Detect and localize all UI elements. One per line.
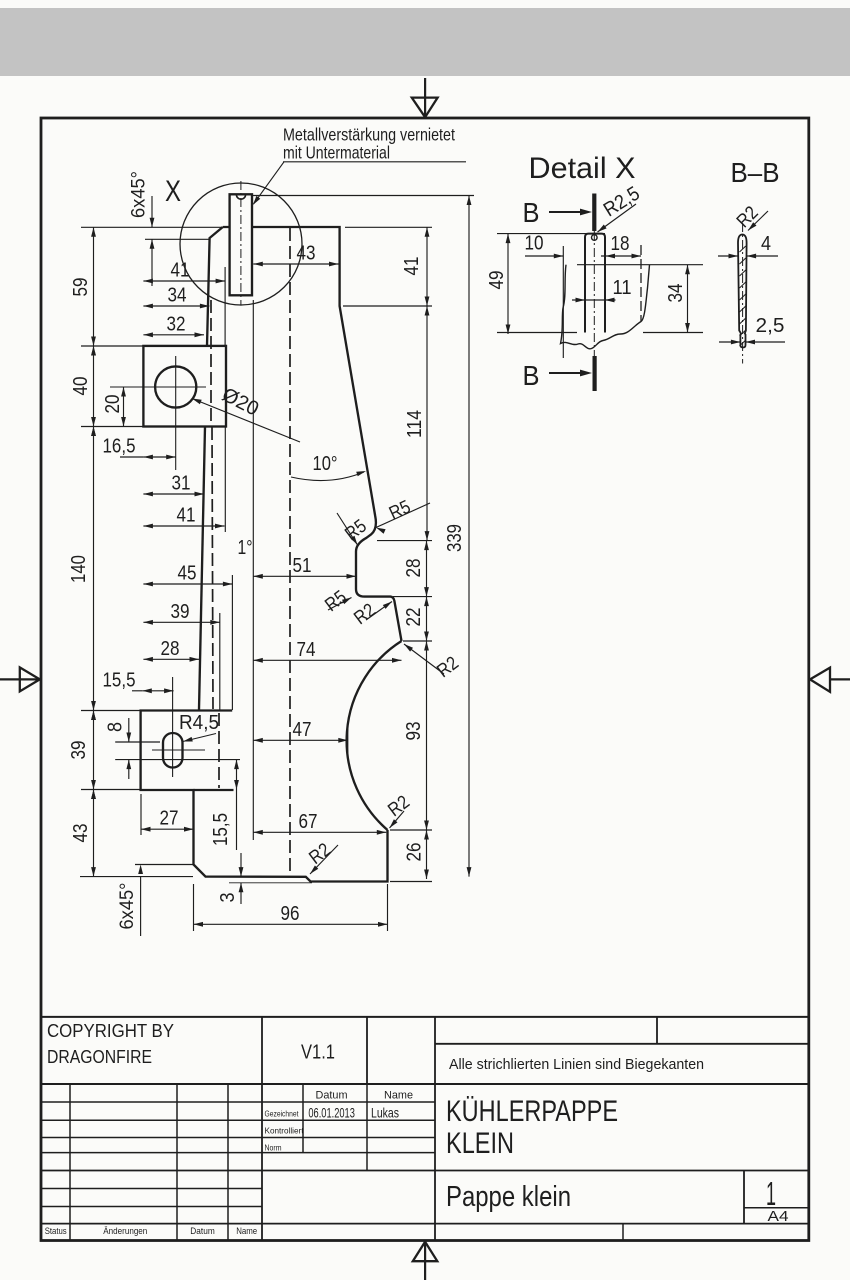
detail bend dashed x=641 xyxy=(640,245,642,321)
svg-text:KÜHLERPAPPE: KÜHLERPAPPE xyxy=(446,1095,618,1128)
svg-text:27: 27 xyxy=(160,808,179,830)
dim 28 right xyxy=(426,541,428,597)
extension 39 xyxy=(219,613,221,710)
centering mark left xyxy=(0,678,40,680)
title block vertical main dividers xyxy=(261,1017,263,1084)
svg-text:15,5: 15,5 xyxy=(210,813,232,846)
part outline bottom and left side xyxy=(141,711,388,882)
dim 16.5 xyxy=(120,456,143,458)
svg-text:28: 28 xyxy=(161,638,180,660)
svg-text:V1.1: V1.1 xyxy=(301,1042,335,1064)
dim 74 xyxy=(253,659,401,661)
svg-text:34: 34 xyxy=(665,284,687,303)
svg-text:45: 45 xyxy=(178,563,197,585)
svg-text:15,5: 15,5 xyxy=(103,669,136,691)
BB dim 4 xyxy=(718,255,738,257)
detail dim 49 xyxy=(507,234,509,334)
dim 41 mid xyxy=(143,525,224,527)
dim 339 xyxy=(468,196,470,877)
detail center line xyxy=(593,231,595,361)
svg-text:18: 18 xyxy=(611,233,630,255)
svg-text:Name: Name xyxy=(236,1226,257,1237)
svg-text:mit Untermaterial: mit Untermaterial xyxy=(283,143,390,163)
svg-text:Datum: Datum xyxy=(190,1226,215,1237)
drawing frame border xyxy=(41,118,809,1241)
dim 27 xyxy=(141,828,194,830)
svg-text:B–B: B–B xyxy=(731,157,780,188)
left table columns xyxy=(69,1084,71,1240)
svg-text:B: B xyxy=(523,360,540,391)
svg-text:KLEIN: KLEIN xyxy=(446,1127,514,1160)
dim 47 xyxy=(253,739,347,741)
extension 27 left xyxy=(140,794,142,835)
step edge overrun y=790 xyxy=(194,789,234,791)
detail dim 10 xyxy=(525,255,563,257)
svg-text:20: 20 xyxy=(102,395,124,414)
detail rivet small circle R2.5 xyxy=(592,235,598,241)
rivet top notch xyxy=(236,195,245,200)
dim 45 xyxy=(143,583,232,585)
centering mark bottom xyxy=(424,1242,426,1280)
bend line main x=290 xyxy=(289,228,291,877)
svg-text:93: 93 xyxy=(403,722,425,741)
dim 15.5 horizontal xyxy=(132,690,142,692)
svg-text:140: 140 xyxy=(68,555,90,583)
svg-text:16,5: 16,5 xyxy=(103,436,136,458)
dim 8 xyxy=(128,718,130,742)
dim 43 top xyxy=(253,263,338,265)
svg-text:11: 11 xyxy=(613,277,632,299)
svg-text:96: 96 xyxy=(281,903,300,925)
part outline 1deg left edge lower xyxy=(199,427,205,710)
svg-text:Lukas: Lukas xyxy=(371,1105,399,1121)
detail dim 11 xyxy=(572,299,616,301)
svg-text:2,5: 2,5 xyxy=(756,315,785,337)
bend line slot block x=219 xyxy=(218,713,220,788)
dim 26 xyxy=(426,830,428,879)
centering mark right xyxy=(830,678,850,680)
centering mark top xyxy=(424,78,426,117)
dim 20 xyxy=(123,387,125,427)
title block outer lines xyxy=(41,1016,809,1018)
rivet reinforcement plate xyxy=(230,194,252,295)
extension rivet right edge long xyxy=(252,300,254,840)
svg-text:28: 28 xyxy=(403,559,425,578)
svg-text:B: B xyxy=(523,197,540,228)
extension 3 step lower xyxy=(229,882,312,884)
format cell dividers xyxy=(743,1171,745,1224)
extension 96 xyxy=(193,884,195,931)
dim 32 xyxy=(143,334,204,336)
slot R4.5 obround xyxy=(163,733,183,768)
dim 6x45 bottom xyxy=(140,877,142,936)
svg-text:39: 39 xyxy=(171,601,190,623)
svg-text:6x45°: 6x45° xyxy=(117,883,138,930)
label R2 arc bottom xyxy=(390,811,405,828)
BB center line xyxy=(742,223,744,364)
extensions right side chain xyxy=(377,540,432,542)
svg-text:Alle strichlierten Linien sind: Alle strichlierten Linien sind Biegekant… xyxy=(449,1056,704,1073)
svg-text:43: 43 xyxy=(297,243,316,265)
svg-text:41: 41 xyxy=(177,505,196,527)
svg-text:Name: Name xyxy=(384,1090,413,1102)
dim 114 xyxy=(426,306,428,541)
svg-text:339: 339 xyxy=(444,524,466,552)
detail extension lines xyxy=(497,233,605,235)
label R5 right xyxy=(376,503,430,528)
svg-text:59: 59 xyxy=(70,278,92,297)
part outline main body xyxy=(223,227,402,641)
part outline big concave arc R2 xyxy=(347,641,402,830)
extension arc leftmost 47 xyxy=(347,728,349,757)
detail extension 10 at x=563 xyxy=(562,246,564,358)
svg-text:22: 22 xyxy=(403,608,425,627)
dim 41 right xyxy=(426,227,428,306)
svg-text:10°: 10° xyxy=(313,453,338,475)
dimension chain line left xyxy=(93,227,95,876)
svg-text:8: 8 xyxy=(105,722,127,732)
extension right top 41 xyxy=(345,226,432,228)
rivet center line xyxy=(240,181,242,306)
svg-text:41: 41 xyxy=(171,260,190,282)
detail rivet section outline xyxy=(585,234,605,333)
square flap with hole xyxy=(143,346,226,427)
dim 34 xyxy=(143,305,209,307)
svg-text:6x45°: 6x45° xyxy=(129,171,150,218)
svg-text:67: 67 xyxy=(299,811,318,833)
BB hatching xyxy=(740,246,746,252)
hole center lines xyxy=(110,386,206,388)
gray header bar xyxy=(0,8,850,76)
BB dim 2.5 xyxy=(719,341,740,343)
dim 15.5 vertical xyxy=(236,760,238,850)
svg-text:26: 26 xyxy=(404,843,426,862)
extensions slot 8 and 15.5 xyxy=(115,741,160,743)
svg-text:114: 114 xyxy=(404,410,426,438)
part outline 1deg left edge upper and chamfer 6x45 xyxy=(207,227,223,346)
svg-text:DRAGONFIRE: DRAGONFIRE xyxy=(47,1047,152,1067)
svg-text:06.01.2013: 06.01.2013 xyxy=(308,1105,355,1121)
svg-text:Kontrolliert: Kontrolliert xyxy=(265,1126,305,1136)
dim 3 step xyxy=(240,853,242,877)
extension lines left chain xyxy=(81,226,222,228)
svg-text:31: 31 xyxy=(172,473,191,495)
svg-text:3: 3 xyxy=(217,893,239,903)
label R2 at 22 point xyxy=(404,644,444,674)
svg-text:Änderungen: Änderungen xyxy=(103,1226,147,1237)
slot center lines xyxy=(152,749,205,751)
extension 45 xyxy=(231,575,233,710)
label R2 bottom step xyxy=(310,845,338,874)
svg-text:49: 49 xyxy=(486,271,508,290)
svg-text:51: 51 xyxy=(293,555,312,577)
svg-text:47: 47 xyxy=(293,719,312,741)
step edge overrun y=710 xyxy=(199,709,232,711)
svg-text:Status: Status xyxy=(45,1226,67,1237)
svg-text:39: 39 xyxy=(68,741,90,760)
dim 6x45 top xyxy=(151,196,153,227)
label R2.5 with leader xyxy=(598,204,637,232)
svg-text:43: 43 xyxy=(70,824,92,843)
svg-text:Pappe klein: Pappe klein xyxy=(446,1181,571,1213)
detail dim 18 xyxy=(601,255,641,257)
svg-text:Detail X: Detail X xyxy=(529,152,636,185)
extension rivet top for 339 xyxy=(252,195,474,197)
svg-text:1: 1 xyxy=(766,1175,776,1212)
label R2 BB xyxy=(748,211,768,231)
hole D20 xyxy=(155,366,196,407)
svg-text:Datum: Datum xyxy=(316,1090,348,1102)
dim 51 xyxy=(253,575,356,577)
left table rows xyxy=(41,1101,435,1103)
bend line left x=211 xyxy=(210,300,212,427)
svg-text:41: 41 xyxy=(401,257,423,276)
detail dim 34 xyxy=(687,265,689,333)
label D20 xyxy=(192,399,300,443)
detail X circle xyxy=(180,183,302,305)
svg-text:74: 74 xyxy=(297,639,316,661)
svg-text:COPYRIGHT BY: COPYRIGHT BY xyxy=(47,1021,174,1041)
svg-text:4: 4 xyxy=(761,233,771,255)
label R5 tab lower-left xyxy=(328,598,352,611)
svg-text:R4,5: R4,5 xyxy=(179,712,219,734)
dim 67 xyxy=(253,831,386,833)
detail torn material outline xyxy=(561,265,650,349)
svg-text:32: 32 xyxy=(167,313,186,335)
svg-text:40: 40 xyxy=(70,377,92,396)
svg-text:10: 10 xyxy=(525,233,544,255)
dim 96 xyxy=(194,923,388,925)
svg-text:Metallverstärkung vernietet: Metallverstärkung vernietet xyxy=(283,125,455,145)
svg-text:Norm: Norm xyxy=(265,1142,282,1152)
dim 31 xyxy=(143,493,204,495)
dim 28 mid xyxy=(143,658,199,660)
svg-text:X: X xyxy=(165,175,181,208)
svg-text:A4: A4 xyxy=(768,1208,789,1225)
dim 41 top xyxy=(143,280,225,282)
BB section bar outline xyxy=(738,235,747,348)
label R5 upper slant xyxy=(337,513,358,545)
svg-text:34: 34 xyxy=(168,285,187,307)
label R2 tab corner xyxy=(366,602,392,621)
dim 39 mid xyxy=(143,621,219,623)
svg-text:1°: 1° xyxy=(238,537,253,559)
svg-text:Gezeichnet: Gezeichnet xyxy=(265,1109,300,1119)
extension 41 flap corner xyxy=(224,267,226,345)
dim 22 xyxy=(426,597,428,641)
dim 93 xyxy=(426,641,428,830)
